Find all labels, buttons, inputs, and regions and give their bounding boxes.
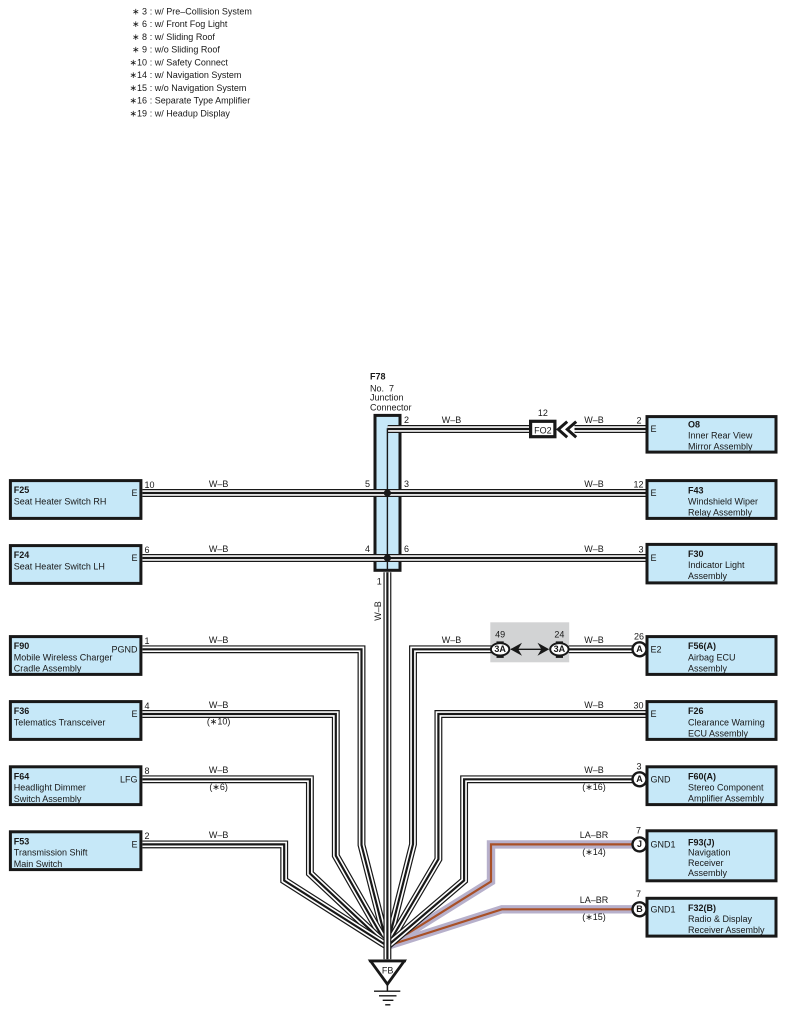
svg-text:E2: E2 <box>651 644 662 654</box>
box F24 Seat Heater Switch LH <box>10 545 149 584</box>
svg-text:Airbag ECU: Airbag ECU <box>688 652 736 662</box>
svg-text:W–B: W–B <box>584 635 604 645</box>
box F26 Clearance Warning ECU Assembly <box>633 700 776 739</box>
wire W-B F26 pin30 to ground <box>387 714 646 946</box>
svg-text:F78: F78 <box>370 372 386 382</box>
wire W-B F90 PGND pin1 to ground <box>143 649 388 946</box>
svg-text:W–B: W–B <box>209 635 229 645</box>
svg-text:3: 3 <box>404 479 409 489</box>
connector circle J at F93 <box>633 837 647 851</box>
svg-text:F60(A): F60(A) <box>688 771 716 781</box>
svg-text:F24: F24 <box>14 550 30 560</box>
svg-text:8: 8 <box>145 766 150 776</box>
svg-text:W–B: W–B <box>209 544 229 554</box>
svg-text:Seat Heater Switch RH: Seat Heater Switch RH <box>14 497 107 507</box>
junction connector F78 label <box>370 372 412 413</box>
svg-text:Assembly: Assembly <box>688 868 728 878</box>
box F64 Headlight Dimmer Switch Assembly <box>10 766 149 805</box>
svg-text:E: E <box>651 424 657 434</box>
svg-text:7: 7 <box>636 889 641 899</box>
svg-text:(∗10): (∗10) <box>207 717 231 727</box>
svg-text:∗ 8: ∗ 8 <box>132 32 147 42</box>
svg-text:4: 4 <box>145 701 150 711</box>
svg-text:W–B: W–B <box>209 830 229 840</box>
svg-text:(∗6): (∗6) <box>209 782 228 792</box>
box O8 Inner Rear View Mirror Assembly <box>636 415 776 452</box>
svg-text:3A: 3A <box>494 644 506 654</box>
svg-text:2: 2 <box>636 415 641 425</box>
svg-text:6: 6 <box>145 545 150 555</box>
connector FO2 <box>531 408 555 437</box>
svg-text:Relay Assembly: Relay Assembly <box>688 508 753 518</box>
svg-text:W–B: W–B <box>584 700 604 710</box>
svg-text:49: 49 <box>495 629 505 639</box>
svg-text:W–B: W–B <box>209 479 229 489</box>
svg-text:∗ 9: ∗ 9 <box>132 45 147 55</box>
svg-text:W–B: W–B <box>442 635 462 645</box>
svg-text:A: A <box>636 644 643 654</box>
svg-text:(∗15): (∗15) <box>582 912 606 922</box>
svg-text:ECU Assembly: ECU Assembly <box>688 729 749 739</box>
svg-text:Amplifier Assembly: Amplifier Assembly <box>688 794 765 804</box>
svg-text:F93(J): F93(J) <box>688 837 715 847</box>
svg-text:GND1: GND1 <box>651 840 676 850</box>
svg-text:W–B: W–B <box>584 479 604 489</box>
box F32(B) Radio and Display Receiver Assembly <box>636 889 776 936</box>
svg-text:O8: O8 <box>688 420 700 430</box>
svg-text:E: E <box>651 709 657 719</box>
svg-text:W–B: W–B <box>209 765 229 775</box>
wire LA-BR F32(B) GND1 pin7 to ground <box>389 909 634 945</box>
svg-text:2: 2 <box>145 831 150 841</box>
svg-text:LA–BR: LA–BR <box>580 830 609 840</box>
svg-text:E: E <box>131 709 137 719</box>
svg-text:: w/ Front Fog Light: : w/ Front Fog Light <box>150 19 228 29</box>
svg-text:∗ 3: ∗ 3 <box>132 6 147 16</box>
vertical W-B label on pin1 wire <box>373 601 383 621</box>
svg-text:Stereo Component: Stereo Component <box>688 783 764 793</box>
svg-text:24: 24 <box>554 629 564 639</box>
svg-text:3: 3 <box>638 544 643 554</box>
svg-text:1: 1 <box>145 636 150 646</box>
svg-text:FO2: FO2 <box>534 425 552 435</box>
svg-text:E: E <box>651 553 657 563</box>
wire LA-BR F93(J) GND1 pin7 to ground <box>389 844 634 945</box>
svg-text:∗ 6: ∗ 6 <box>132 19 147 29</box>
svg-text:F30: F30 <box>688 549 704 559</box>
svg-text:12: 12 <box>538 408 548 418</box>
svg-text:Assembly: Assembly <box>688 664 728 674</box>
junction pin numbers <box>365 415 409 586</box>
svg-text:Transmission Shift: Transmission Shift <box>14 848 88 858</box>
svg-text:7: 7 <box>636 825 641 835</box>
svg-text:Switch Assembly: Switch Assembly <box>14 794 82 804</box>
svg-text:Headlight Dimmer: Headlight Dimmer <box>14 783 86 793</box>
ground point FB triangle <box>369 961 406 984</box>
svg-text:: w/ Safety Connect: : w/ Safety Connect <box>150 58 229 68</box>
svg-text:F25: F25 <box>14 485 30 495</box>
svg-text:Inner Rear View: Inner Rear View <box>688 431 753 441</box>
svg-text:: w/ Navigation System: : w/ Navigation System <box>150 70 242 80</box>
svg-text:E: E <box>131 488 137 498</box>
svg-text:F26: F26 <box>688 706 704 716</box>
svg-text:Assembly: Assembly <box>688 571 728 581</box>
svg-text:Mobile Wireless Charger: Mobile Wireless Charger <box>14 653 113 663</box>
svg-text:F64: F64 <box>14 771 30 781</box>
svg-text:Indicator Light: Indicator Light <box>688 560 745 570</box>
wire W-B F53 pin2 to ground <box>143 844 388 946</box>
svg-text:Receiver: Receiver <box>688 858 724 868</box>
junction connector F78 body <box>375 415 400 570</box>
box F60(A) Stereo Component Amplifier Assembly <box>636 762 776 805</box>
svg-text:Connector: Connector <box>370 403 412 413</box>
svg-text:: w/ Sliding Roof: : w/ Sliding Roof <box>150 32 216 42</box>
svg-text:10: 10 <box>145 480 155 490</box>
svg-text:∗14: ∗14 <box>129 70 147 80</box>
svg-text:4: 4 <box>365 544 370 554</box>
connector circle A at F56 <box>633 642 647 656</box>
svg-text:W–B: W–B <box>584 415 604 425</box>
wire W-B airbag connector to F56(A) pin26 <box>569 648 633 650</box>
svg-text:Navigation: Navigation <box>688 848 731 858</box>
svg-text:∗16: ∗16 <box>129 96 147 106</box>
svg-text:Windshield Wiper: Windshield Wiper <box>688 497 758 507</box>
svg-text:Cradle Assembly: Cradle Assembly <box>14 664 82 674</box>
wire W-B F36 pin4 to ground <box>143 714 388 946</box>
svg-text:30: 30 <box>633 700 643 710</box>
svg-text:∗19: ∗19 <box>129 109 147 119</box>
svg-text:E: E <box>651 488 657 498</box>
svg-text:Receiver Assembly: Receiver Assembly <box>688 925 765 935</box>
svg-text:F36: F36 <box>14 706 30 716</box>
svg-text:J: J <box>637 839 642 849</box>
svg-text:Mirror Assembly: Mirror Assembly <box>688 442 753 452</box>
svg-text:: Separate Type Amplifier: : Separate Type Amplifier <box>150 96 250 106</box>
svg-text:B: B <box>636 904 643 914</box>
svg-text:Clearance Warning: Clearance Warning <box>688 717 765 727</box>
svg-text:FB: FB <box>382 965 394 975</box>
svg-text:Radio & Display: Radio & Display <box>688 914 753 924</box>
svg-text:E: E <box>131 553 137 563</box>
svg-text:A: A <box>636 774 643 784</box>
airbag inline connector arrows <box>510 643 549 656</box>
svg-text:W–B: W–B <box>373 601 383 621</box>
wire W-B F24 pin6 to F30 pin3 through junction pins 4/6 <box>143 557 646 559</box>
svg-text:W–B: W–B <box>209 700 229 710</box>
svg-text:(∗16): (∗16) <box>582 782 606 792</box>
svg-text:: w/o Navigation System: : w/o Navigation System <box>150 83 247 93</box>
svg-text:W–B: W–B <box>442 415 462 425</box>
legend option notes <box>129 6 251 118</box>
svg-text:1: 1 <box>377 576 382 586</box>
svg-text:GND: GND <box>651 774 672 784</box>
svg-text:W–B: W–B <box>584 544 604 554</box>
svg-text:F53: F53 <box>14 836 30 846</box>
airbag connector 3A right pin24 <box>550 629 568 658</box>
svg-text:PGND: PGND <box>111 644 138 654</box>
svg-text:Junction: Junction <box>370 393 404 403</box>
airbag connector 3A left pin49 <box>491 629 509 658</box>
wire W-B F60(A) GND pin3 to ground <box>387 779 633 946</box>
wire color labels middle and right column <box>442 415 609 922</box>
box F90 Mobile Wireless Charger Cradle Assembly <box>10 636 149 675</box>
svg-text:W–B: W–B <box>584 765 604 775</box>
junction internal bus with junction dots <box>384 429 401 571</box>
wire color labels left column <box>207 479 231 840</box>
svg-text:(∗14): (∗14) <box>582 847 606 857</box>
box F56(A) Airbag ECU Assembly <box>634 632 776 675</box>
wire W-B F64 LFG pin8 to ground <box>143 779 388 946</box>
wire W-B FO2 to O8 pin2 <box>575 428 646 430</box>
box F30 Indicator Light Assembly <box>638 544 776 583</box>
box F36 Telematics Transceiver <box>10 701 149 740</box>
svg-text:: w/o Sliding Roof: : w/o Sliding Roof <box>150 45 221 55</box>
wire W-B F25 pin10 to F43 pin12 through junction pins 5/3 <box>143 492 646 494</box>
box F25 Seat Heater Switch RH <box>10 480 154 519</box>
svg-text:Seat Heater Switch LH: Seat Heater Switch LH <box>14 562 105 572</box>
wire W-B junction pin2 to FO2 <box>388 428 531 430</box>
svg-text:F43: F43 <box>688 485 704 495</box>
svg-text:3: 3 <box>636 762 641 772</box>
svg-text:: w/ Pre–Collision System: : w/ Pre–Collision System <box>150 6 252 16</box>
box F43 Windshield Wiper Relay Assembly <box>633 479 776 518</box>
svg-text:26: 26 <box>634 632 644 642</box>
svg-text:2: 2 <box>404 415 409 425</box>
wire W-B junction pin1 to ground point FB <box>386 572 388 959</box>
svg-text:12: 12 <box>633 479 643 489</box>
svg-text:Telematics Transceiver: Telematics Transceiver <box>14 718 106 728</box>
svg-text:LA–BR: LA–BR <box>580 895 609 905</box>
ground symbol hatching <box>374 984 400 1005</box>
svg-text:∗10: ∗10 <box>129 58 147 68</box>
svg-text:F56(A): F56(A) <box>688 641 716 651</box>
airbag connector gray background <box>490 622 569 662</box>
connector circle A at F60 <box>633 772 647 786</box>
box F53 Transmission Shift Main Switch <box>10 831 149 870</box>
wire W-B airbag connector to ground <box>387 649 491 946</box>
svg-text:: w/ Headup Display: : w/ Headup Display <box>150 109 231 119</box>
svg-text:GND1: GND1 <box>651 904 676 914</box>
box F93(J) Navigation Receiver Assembly <box>636 825 776 881</box>
svg-text:3A: 3A <box>554 644 566 654</box>
svg-text:∗15: ∗15 <box>129 83 147 93</box>
svg-text:F32(B): F32(B) <box>688 903 716 913</box>
svg-text:E: E <box>131 840 137 850</box>
FO2 mating chevrons <box>558 422 576 438</box>
svg-text:6: 6 <box>404 544 409 554</box>
connector circle B at F32 <box>633 902 647 916</box>
svg-text:Main Switch: Main Switch <box>14 859 63 869</box>
svg-text:F90: F90 <box>14 641 30 651</box>
svg-text:LFG: LFG <box>120 774 138 784</box>
svg-text:5: 5 <box>365 479 370 489</box>
